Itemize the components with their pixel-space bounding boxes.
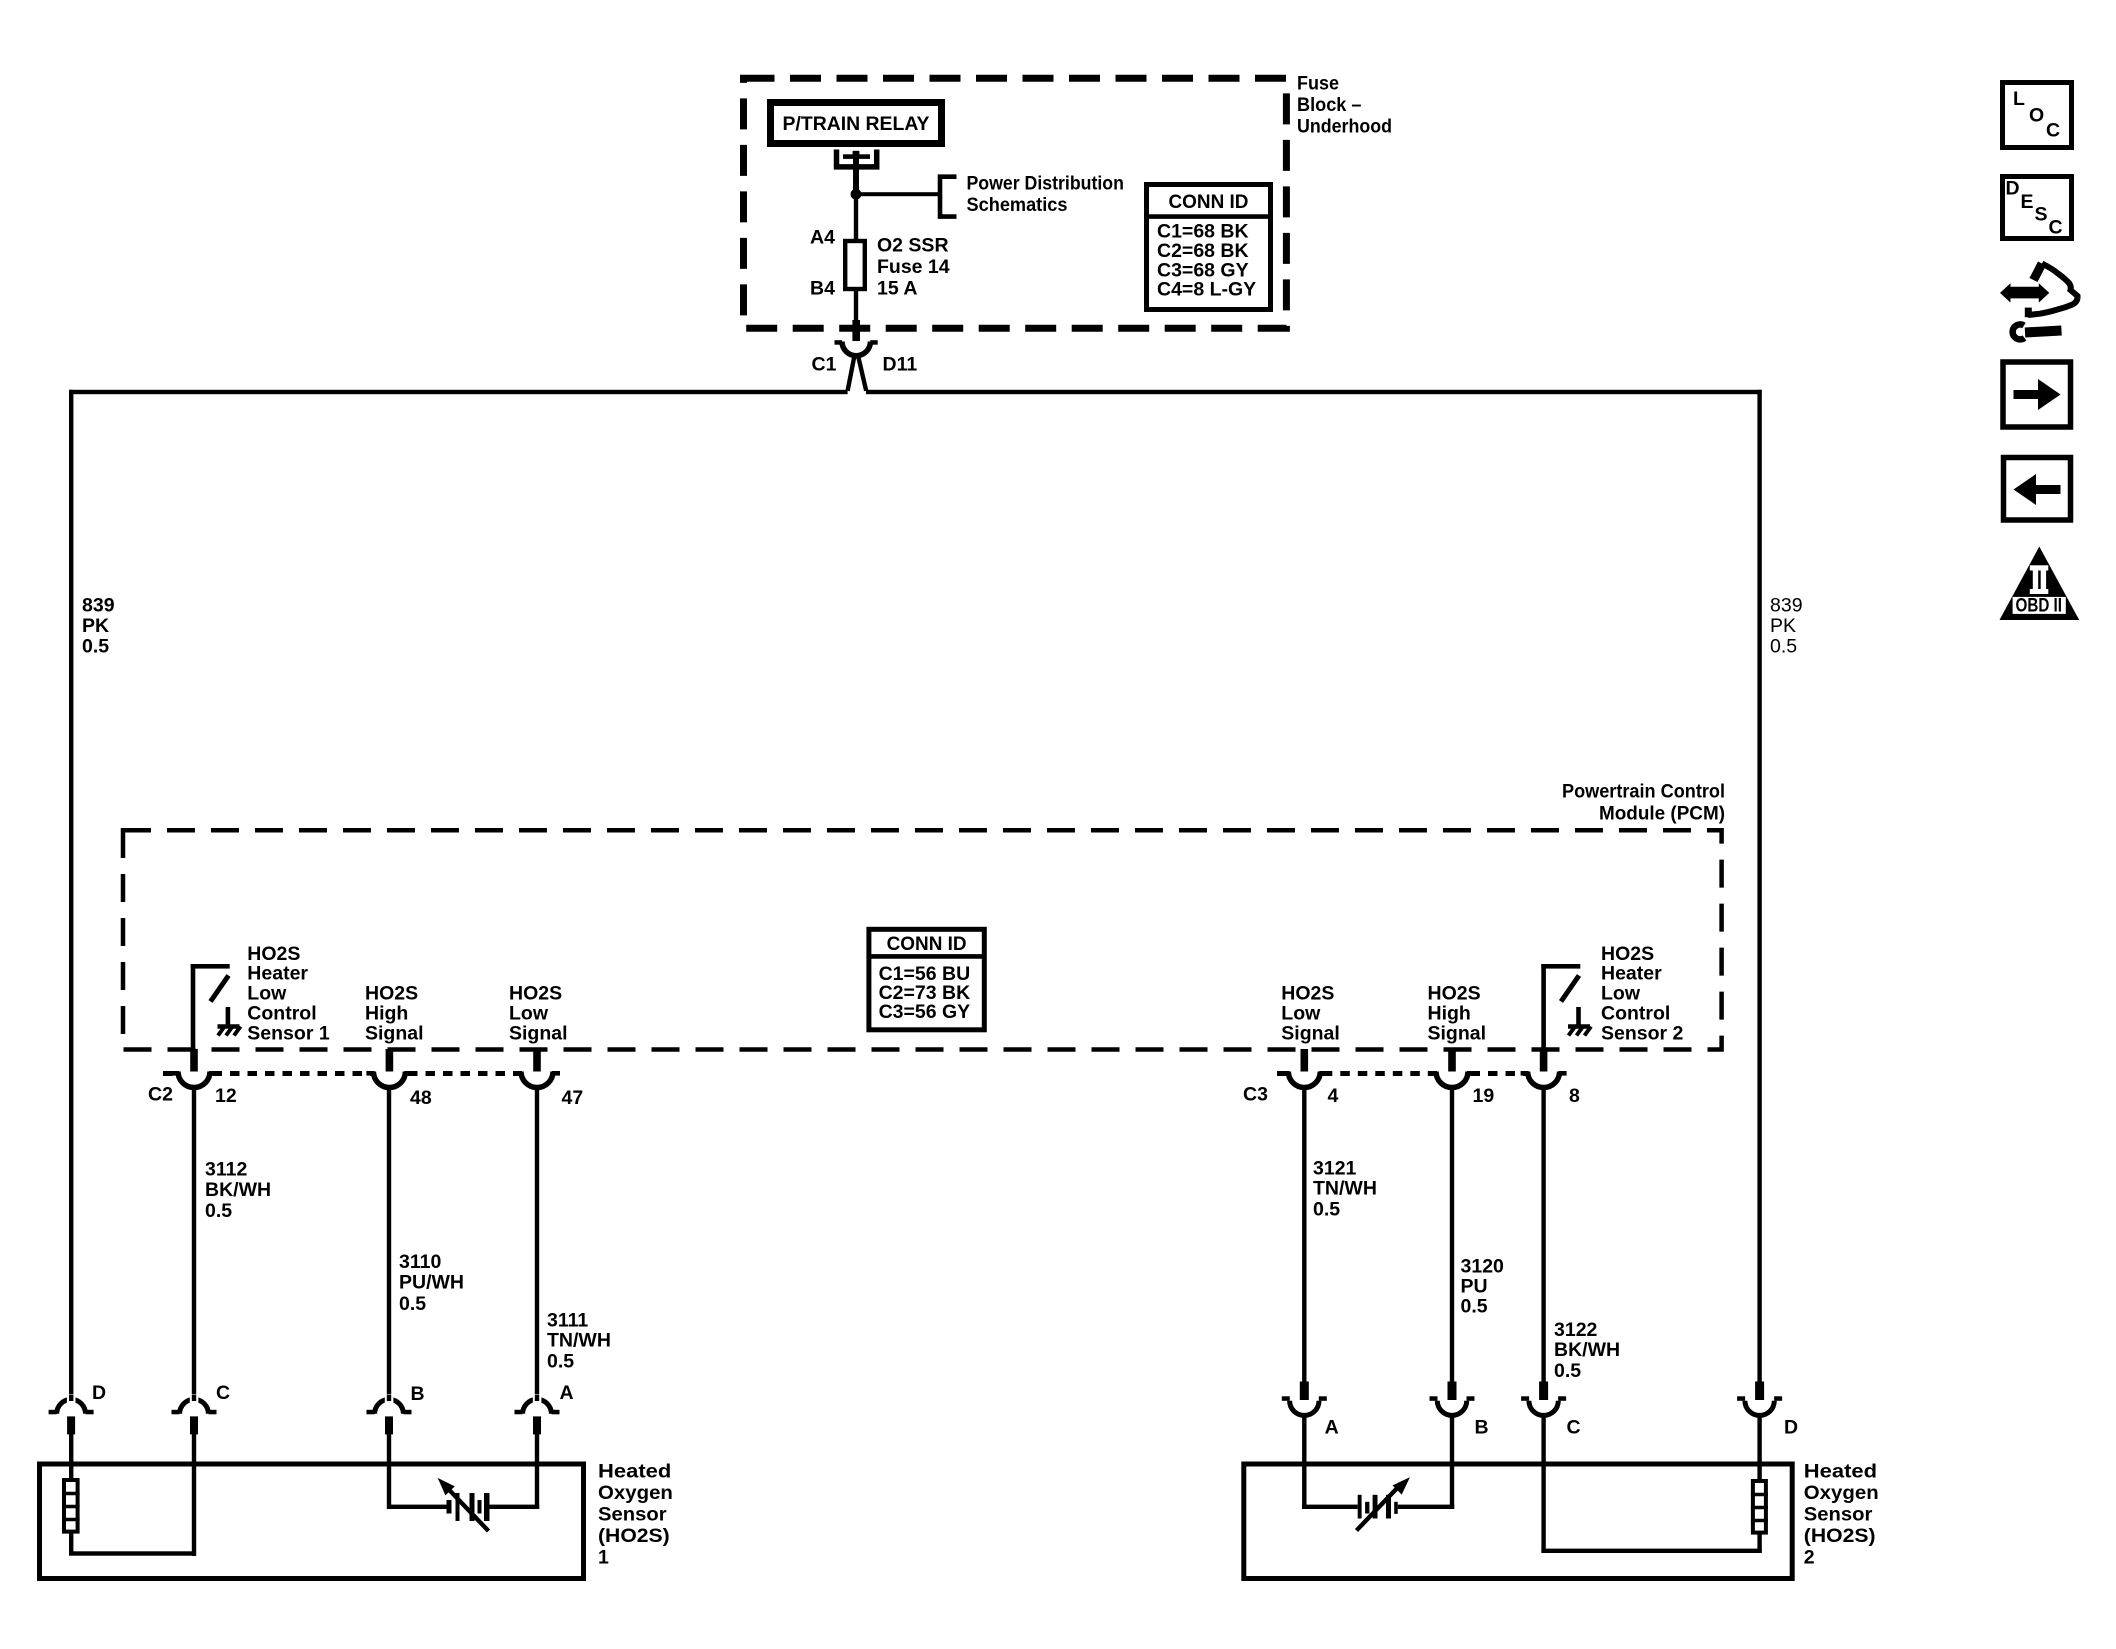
svg-text:4: 4	[1328, 1085, 1339, 1107]
relay K: P/TRAIN RELAY box	[771, 103, 942, 144]
svg-text:BK/WH: BK/WH	[1554, 1339, 1620, 1361]
sensor 1 box	[40, 1464, 584, 1579]
label HO2S heater low control sensor 1	[247, 943, 330, 1044]
junction node	[851, 189, 862, 200]
svg-text:S: S	[2035, 204, 2048, 226]
svg-text:Schematics: Schematics	[967, 194, 1068, 216]
svg-text:D: D	[1784, 1417, 1798, 1439]
svg-text:(HO2S): (HO2S)	[598, 1525, 670, 1547]
PCM label	[1562, 781, 1725, 825]
svg-text:C3=56 GY: C3=56 GY	[879, 1001, 971, 1023]
svg-text:0.5: 0.5	[1313, 1199, 1340, 1221]
svg-text:Power Distribution: Power Distribution	[967, 173, 1124, 195]
wire label 3121 TN/WH 0.5	[1313, 1158, 1377, 1221]
svg-text:Low: Low	[247, 983, 287, 1005]
wire label 3111 TN/WH 0.5	[547, 1310, 611, 1373]
svg-text:Powertrain Control: Powertrain Control	[1562, 781, 1725, 803]
wire label 839 PK 0.5 (left)	[82, 595, 115, 658]
svg-text:HO2S: HO2S	[1428, 983, 1481, 1005]
svg-text:0.5: 0.5	[547, 1351, 574, 1373]
sensor2 connector pin C stub and cup	[1521, 1382, 1566, 1554]
svg-text:8: 8	[1569, 1085, 1580, 1107]
connector C3 pin 4 cup	[1288, 1072, 1320, 1088]
connector C2 pin 47 stub	[533, 1049, 541, 1072]
icon LOC box	[2003, 83, 2072, 148]
svg-text:Block –: Block –	[1297, 94, 1362, 116]
svg-text:0.5: 0.5	[205, 1200, 232, 1222]
conn id table (fuse block)	[1147, 185, 1271, 310]
bus wire 839 horizontal right segment	[866, 390, 1762, 394]
svg-text:12: 12	[215, 1085, 237, 1107]
svg-text:CONN ID: CONN ID	[887, 933, 967, 955]
svg-text:PK: PK	[82, 615, 109, 637]
wire label 3120 PU 0.5	[1461, 1256, 1505, 1318]
svg-text:C2: C2	[148, 1084, 173, 1106]
svg-text:Signal: Signal	[365, 1022, 424, 1044]
svg-text:15 A: 15 A	[877, 278, 917, 300]
bus wire 839 horizontal left segment	[69, 390, 848, 394]
svg-text:C4=8 L-GY: C4=8 L-GY	[1157, 279, 1256, 301]
sensor 1 heater element	[62, 1480, 80, 1532]
svg-text:(HO2S): (HO2S)	[1804, 1525, 1876, 1547]
arrow (sensor 1 variable)	[438, 1478, 489, 1531]
driver (HO2S heater low control sensor 2)	[1541, 964, 1580, 1049]
wire relay to junction	[853, 156, 859, 195]
wire Y-split right leg	[858, 356, 866, 391]
svg-text:Low: Low	[1601, 983, 1641, 1005]
svg-text:19: 19	[1473, 1085, 1495, 1107]
connector C2 dotted link	[163, 1071, 519, 1076]
power distribution schematics label	[967, 173, 1124, 216]
wire label 3112 BK/WH 0.5	[205, 1159, 271, 1222]
connector C2 pin 47 cup	[521, 1072, 553, 1088]
wire Y-split left leg	[848, 356, 855, 391]
svg-text:TN/WH: TN/WH	[547, 1330, 611, 1352]
svg-text:3111: 3111	[547, 1310, 588, 1332]
svg-text:3122: 3122	[1554, 1319, 1598, 1341]
svg-text:HO2S: HO2S	[1601, 943, 1654, 965]
svg-text:3120: 3120	[1461, 1256, 1505, 1278]
svg-text:High: High	[365, 1003, 408, 1025]
svg-text:0.5: 0.5	[399, 1293, 426, 1315]
svg-text:OBD II: OBD II	[2016, 595, 2063, 617]
svg-text:48: 48	[410, 1087, 432, 1109]
svg-text:B: B	[411, 1383, 425, 1405]
svg-text:A4: A4	[810, 227, 835, 249]
svg-text:Signal: Signal	[1281, 1022, 1340, 1044]
svg-text:0.5: 0.5	[1770, 636, 1797, 658]
connector C3 pin 19 stub	[1448, 1049, 1456, 1072]
sensor 2 element (variable battery)	[1302, 1495, 1454, 1519]
label HO2S high signal (pin 48)	[365, 983, 424, 1045]
connector C2 pin 48 stub	[386, 1049, 394, 1072]
icon DESC box	[2003, 177, 2072, 239]
svg-text:Heated: Heated	[1804, 1461, 1877, 1483]
connector C1/D11 pin stub	[852, 320, 860, 341]
wire label 3122 BK/WH 0.5	[1554, 1319, 1620, 1382]
svg-text:C: C	[2049, 217, 2063, 239]
svg-text:D: D	[92, 1382, 106, 1404]
wire heater2 bottom to pin C	[1541, 1534, 1761, 1553]
svg-text:A: A	[560, 1382, 574, 1404]
svg-text:3110: 3110	[399, 1251, 441, 1273]
sensor 1 label	[598, 1461, 673, 1569]
svg-text:CONN ID: CONN ID	[1169, 191, 1249, 213]
sensor 1 element (variable battery)	[389, 1493, 539, 1521]
svg-text:Module (PCM): Module (PCM)	[1599, 803, 1725, 825]
wire 3110 PU/WH	[387, 1087, 391, 1400]
svg-text:HO2S: HO2S	[1281, 983, 1334, 1005]
svg-text:Heater: Heater	[247, 963, 308, 985]
connector C3 pin 4 stub	[1301, 1049, 1309, 1072]
PCM dashed border	[123, 830, 1722, 1049]
svg-text:PU: PU	[1461, 1276, 1488, 1298]
svg-text:Oxygen: Oxygen	[598, 1482, 673, 1504]
svg-text:Sensor 2: Sensor 2	[1601, 1022, 1684, 1044]
svg-text:Low: Low	[1281, 1003, 1321, 1025]
ground symbol (sensor 2 driver)	[1568, 1007, 1591, 1036]
wire 3122 BK/WH	[1541, 1087, 1545, 1382]
icon forward arrow box	[2003, 362, 2071, 427]
ground symbol (sensor 1 driver)	[218, 1007, 241, 1036]
fuse value label	[877, 235, 950, 300]
connector C3 pin 8 cup	[1528, 1072, 1560, 1088]
svg-text:C3: C3	[1243, 1084, 1268, 1106]
svg-text:3112: 3112	[205, 1159, 247, 1181]
wire heater1 bottom to pin C	[69, 1533, 196, 1556]
svg-text:A: A	[1325, 1417, 1339, 1439]
wire 3121 TN/WH	[1302, 1087, 1306, 1382]
svg-text:HO2S: HO2S	[247, 943, 300, 965]
label HO2S low signal (pin 4)	[1281, 983, 1340, 1045]
connector C2 pin 48 cup	[373, 1072, 405, 1088]
arrow (sensor 2 variable)	[1357, 1477, 1410, 1530]
icon back arrow box	[2004, 458, 2071, 521]
sensor1 connector pin B arc	[367, 1395, 412, 1510]
svg-text:O2 SSR: O2 SSR	[877, 235, 949, 257]
svg-text:D: D	[2006, 178, 2020, 200]
svg-text:Control: Control	[247, 1003, 316, 1025]
svg-text:1: 1	[598, 1547, 609, 1569]
sensor1 connector pin D arc	[49, 1395, 94, 1480]
sensor2 connector pin B stub and cup	[1430, 1382, 1475, 1510]
wire 3111 TN/WH	[535, 1087, 539, 1400]
svg-text:HO2S: HO2S	[365, 983, 418, 1005]
svg-text:C: C	[2046, 120, 2060, 142]
svg-text:TN/WH: TN/WH	[1313, 1178, 1377, 1200]
wire junction to fuse	[854, 194, 858, 241]
svg-text:B: B	[1475, 1417, 1489, 1439]
wire 839 PK right vertical	[1757, 390, 1761, 1382]
connector C3 pin 19 cup	[1436, 1072, 1468, 1088]
label HO2S high signal (pin 19)	[1428, 983, 1487, 1045]
sensor1 connector pin C arc	[172, 1395, 217, 1557]
relay terminal socket cup	[837, 150, 877, 167]
svg-text:0.5: 0.5	[1461, 1296, 1488, 1318]
svg-text:Sensor 1: Sensor 1	[247, 1022, 330, 1044]
svg-text:0.5: 0.5	[1554, 1360, 1581, 1382]
sensor2 connector pin A stub and cup	[1282, 1382, 1327, 1510]
svg-text:0.5: 0.5	[82, 636, 109, 658]
connector C2 pin 12 stub	[190, 1049, 198, 1072]
svg-text:Heater: Heater	[1601, 963, 1662, 985]
svg-text:E: E	[2021, 191, 2034, 213]
sensor1 connector pin A arc	[515, 1395, 560, 1510]
svg-text:BK/WH: BK/WH	[205, 1179, 271, 1201]
svg-text:C: C	[1567, 1417, 1581, 1439]
wire junction to power distribution bracket	[856, 192, 940, 196]
svg-text:Sensor: Sensor	[598, 1504, 667, 1526]
svg-text:L: L	[2013, 88, 2025, 110]
svg-text:839: 839	[1770, 595, 1803, 617]
svg-text:47: 47	[562, 1087, 584, 1109]
relay terminal pin (male blade)	[843, 151, 870, 159]
svg-text:Signal: Signal	[509, 1022, 568, 1044]
svg-text:Fuse 14: Fuse 14	[877, 256, 950, 278]
svg-text:Underhood: Underhood	[1297, 116, 1392, 138]
svg-text:B4: B4	[810, 278, 835, 300]
wire 839 PK left vertical	[69, 390, 73, 1399]
fuse block underhood dashed border	[744, 78, 1287, 328]
svg-text:O: O	[2029, 105, 2044, 127]
sensor 2 box	[1244, 1464, 1792, 1579]
svg-text:C: C	[216, 1382, 230, 1404]
conn id table (PCM)	[869, 929, 984, 1030]
svg-text:3121: 3121	[1313, 1158, 1357, 1180]
connector C1/D11 socket cup	[842, 342, 870, 356]
svg-text:High: High	[1428, 1003, 1471, 1025]
fuse F14: O2 SSR Fuse 14 15A	[845, 241, 865, 289]
svg-text:PU/WH: PU/WH	[399, 1272, 464, 1294]
svg-text:PK: PK	[1770, 615, 1796, 637]
sensor 2 label	[1804, 1461, 1879, 1569]
wire 3120 PU	[1450, 1087, 1454, 1382]
connector C2 pin 12 cup	[178, 1072, 210, 1088]
label HO2S low signal (pin 47)	[509, 983, 568, 1045]
svg-text:HO2S: HO2S	[509, 983, 562, 1005]
svg-text:Fuse: Fuse	[1297, 73, 1339, 95]
svg-text:2: 2	[1804, 1547, 1815, 1569]
connector C3 pin 8 stub	[1540, 1049, 1548, 1072]
svg-text:D11: D11	[883, 354, 918, 376]
svg-text:C1: C1	[812, 354, 837, 376]
sensor 2 heater element	[1751, 1481, 1768, 1533]
connector C3 dotted link	[1277, 1071, 1526, 1076]
wire label 3110 PU/WH 0.5	[399, 1251, 464, 1315]
wire 3112 BK/WH	[192, 1087, 196, 1400]
svg-text:Oxygen: Oxygen	[1804, 1482, 1879, 1504]
svg-text:Sensor: Sensor	[1804, 1504, 1873, 1526]
wire fuse to connector C1	[854, 289, 858, 322]
wire label 839 PK 0.5 (right)	[1770, 595, 1803, 658]
sensor2 connector pin D stub and cup	[1737, 1382, 1782, 1482]
fuse block label	[1297, 73, 1392, 138]
label HO2S heater low control sensor 2	[1601, 943, 1684, 1044]
svg-text:839: 839	[82, 595, 115, 617]
svg-text:Signal: Signal	[1428, 1022, 1487, 1044]
svg-text:Heated: Heated	[598, 1461, 671, 1483]
svg-text:Control: Control	[1601, 1003, 1670, 1025]
icon OBD II triangle	[2000, 547, 2080, 621]
icon wiring repair (arrow and wrench)	[2000, 264, 2078, 340]
driver (HO2S heater low control sensor 1)	[191, 964, 230, 1049]
svg-text:Low: Low	[509, 1003, 549, 1025]
power distribution schematics bracket	[940, 177, 957, 217]
svg-text:P/TRAIN RELAY: P/TRAIN RELAY	[783, 113, 930, 135]
